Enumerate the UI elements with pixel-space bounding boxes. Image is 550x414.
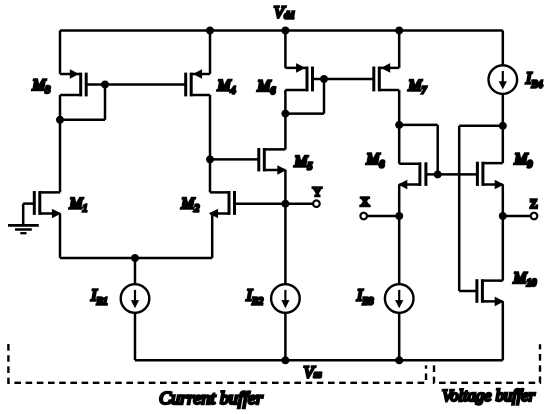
wire Z lead bbox=[503, 215, 531, 218]
current buffer dashed bracket bbox=[8, 344, 426, 383]
node M8 gate junction bbox=[434, 170, 442, 178]
transistor M9 bbox=[483, 162, 503, 165]
svg-text:Current buffer: Current buffer bbox=[159, 388, 264, 408]
node Y junction bbox=[281, 200, 289, 208]
wire Vss rail bbox=[135, 359, 503, 362]
current source IB3 bbox=[385, 284, 414, 313]
wire M4 source column bbox=[209, 31, 212, 75]
wire Y lead bbox=[285, 202, 313, 205]
wire Z to M10 drain bbox=[502, 216, 505, 281]
wire M8 source to X bbox=[398, 185, 401, 217]
transistor M8 bbox=[399, 162, 420, 165]
wire bottom horizontal M1/M2 sources bbox=[60, 257, 212, 260]
terminal X bbox=[360, 213, 367, 220]
wire M2 gate to Y bbox=[235, 202, 286, 205]
node Vss junction IB3 bbox=[395, 356, 403, 364]
wire M1 gate lead bbox=[23, 202, 34, 205]
wire IB1 bottom lead bbox=[134, 313, 137, 361]
wire M6 diode connection bbox=[323, 79, 326, 114]
wire X lead bbox=[367, 215, 399, 218]
svg-text:IB2: IB2 bbox=[245, 285, 263, 307]
svg-text:Vss: Vss bbox=[303, 362, 321, 381]
current source IB4 bbox=[489, 65, 518, 94]
terminal Z bbox=[531, 213, 538, 220]
transistor M10 bbox=[482, 279, 502, 282]
svg-text:M5: M5 bbox=[293, 153, 312, 172]
svg-text:M1: M1 bbox=[69, 195, 88, 214]
wire M7 drain column bbox=[398, 90, 401, 164]
wire gate line M8-M9 bbox=[426, 173, 477, 176]
wire M5 gate lead bbox=[210, 158, 259, 161]
wire M2 source column bbox=[211, 214, 214, 259]
node IB1 top junction bbox=[131, 254, 139, 262]
wire M3 diode connection bbox=[104, 85, 107, 120]
wire M3 source column bbox=[59, 31, 62, 75]
transistor M3 bbox=[60, 73, 81, 76]
svg-text:M7: M7 bbox=[407, 77, 427, 96]
wire Vdd rail bbox=[60, 29, 503, 32]
wire Y to IB2 bbox=[284, 204, 287, 285]
svg-text:Vdd: Vdd bbox=[274, 3, 295, 22]
node M3 gate-drain junction bbox=[101, 81, 109, 89]
wire IB4 top lead bbox=[502, 31, 505, 66]
node M5 gate junction bbox=[206, 155, 214, 163]
wire gate line M3-M4 bbox=[86, 83, 186, 86]
wire left column M3 drain to M1 drain bbox=[59, 95, 62, 192]
wire M5 source to Y bbox=[284, 170, 287, 204]
wire M7 source column bbox=[398, 31, 401, 68]
wire M9 source to Z bbox=[502, 185, 505, 217]
node M6 gate-drain junction bbox=[320, 75, 328, 83]
transistor M7 bbox=[379, 67, 399, 70]
terminal Y bbox=[313, 200, 320, 207]
wire gate line M6-M7 bbox=[313, 78, 374, 81]
svg-text:IB1: IB1 bbox=[90, 285, 108, 307]
node Vdd junction M7 bbox=[395, 27, 403, 35]
svg-text:IB4: IB4 bbox=[525, 68, 543, 90]
svg-text:Y: Y bbox=[313, 184, 323, 199]
node IB4-M9 junction bbox=[499, 122, 507, 130]
svg-text:X: X bbox=[360, 194, 370, 209]
transistor M1 bbox=[40, 191, 60, 194]
wire IB1 top lead bbox=[134, 258, 137, 284]
svg-text:M3: M3 bbox=[31, 77, 50, 96]
node M6 drain junction bbox=[281, 110, 289, 118]
wire M1 source column bbox=[59, 214, 62, 259]
wire IB3 bottom lead bbox=[398, 313, 401, 361]
current source IB2 bbox=[271, 284, 300, 313]
svg-text:M9: M9 bbox=[513, 151, 532, 170]
node M3 drain junction bbox=[56, 116, 64, 124]
svg-text:M8: M8 bbox=[365, 151, 384, 170]
svg-text:M2: M2 bbox=[180, 195, 199, 214]
transistor M2 bbox=[210, 191, 229, 194]
wire X to IB3 bbox=[398, 216, 401, 284]
transistor M5 bbox=[264, 148, 285, 151]
wire IB2 bottom lead bbox=[284, 313, 287, 361]
svg-text:M10: M10 bbox=[512, 270, 536, 289]
svg-text:M6: M6 bbox=[256, 78, 275, 97]
wire IB4 bottom lead bbox=[502, 94, 505, 163]
transistor M6 bbox=[285, 67, 307, 70]
wire M10 source column bbox=[502, 301, 505, 360]
wire M4 drain column bbox=[209, 95, 212, 192]
ground bbox=[8, 224, 39, 227]
svg-text:Z: Z bbox=[530, 196, 538, 211]
wire M8 diode connection bbox=[399, 124, 438, 127]
node M7 drain junction bbox=[395, 121, 403, 129]
wire M6 source column bbox=[284, 31, 287, 68]
node X junction bbox=[395, 212, 403, 220]
node Vss junction IB2 bbox=[281, 356, 289, 364]
node Vdd junction M6 bbox=[281, 27, 289, 35]
node Vdd junction M4 bbox=[206, 27, 214, 35]
wire M6 drain to M5 drain bbox=[284, 90, 287, 149]
node Z junction bbox=[499, 212, 507, 220]
svg-text:Voltage buffer: Voltage buffer bbox=[442, 386, 536, 405]
wire M9 drain to M10 gate bbox=[459, 125, 503, 128]
transistor M4 bbox=[191, 73, 210, 76]
current source IB1 bbox=[121, 284, 150, 313]
svg-text:IB3: IB3 bbox=[356, 285, 374, 307]
voltage buffer dashed bracket bbox=[434, 344, 540, 383]
svg-text:M4: M4 bbox=[217, 77, 236, 96]
